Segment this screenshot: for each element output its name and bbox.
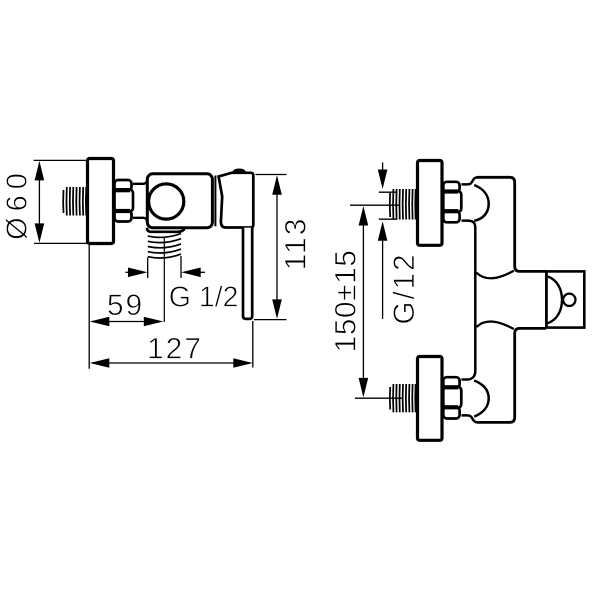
body waist frown curve (right view)	[477, 322, 514, 329]
top sleeve lines into body (right view)	[462, 177, 478, 227]
union nut face boundaries (left view)	[116, 190, 130, 211]
handle escutcheon plate (right view)	[546, 271, 584, 327]
svg-text:G/12: G/12	[388, 253, 421, 325]
handle base (left view)	[219, 173, 254, 228]
dimension 113: dimension line with arrows	[272, 175, 282, 319]
dimension Ø60: extension line top	[34, 159, 90, 161]
dimension 127: dimension line with arrows	[90, 358, 253, 368]
dimension 59: dimension line with arrows	[90, 317, 164, 327]
top inlet thread (right view)	[390, 189, 416, 220]
collar between nut and body (left view)	[133, 182, 147, 221]
handle dome (right view)	[548, 277, 562, 324]
svg-text:Ø60: Ø60	[2, 167, 34, 240]
valve body (left view)	[147, 174, 212, 228]
dimension G/12: upper arrow (pointing down)	[378, 163, 388, 190]
handle button circle (right view)	[563, 294, 575, 306]
union nut (left view, three hex faces)	[115, 180, 134, 222]
dimension Ø60: dimension line with arrows	[35, 161, 45, 243]
outlet centerline (left view)	[163, 238, 165, 322]
dimension G/12: lower arrow (pointing up) with tail	[378, 221, 388, 319]
dimension 113: extension line bottom	[254, 319, 287, 321]
dimension 150±15: extension line bottom (pipe centerline)	[355, 397, 402, 399]
dimension 150±15: dimension line with arrows	[359, 206, 369, 397]
body circle (left view, valve boss)	[149, 184, 184, 219]
wall flange (left view)	[88, 159, 114, 244]
top wall flange (right view)	[418, 161, 443, 246]
dimension Ø60: extension line bottom	[34, 242, 90, 244]
bottom union nut face boundaries (right view)	[445, 387, 459, 407]
bottom sleeve lines into body (right view)	[462, 415, 478, 422]
pipe tip outline top (right view)	[379, 191, 397, 193]
handle cap (black, left view)	[232, 169, 246, 174]
top union nut (right view)	[443, 182, 461, 223]
inlet thread (left view, threaded tail piece)	[63, 187, 86, 216]
svg-text:59: 59	[107, 289, 144, 322]
body outline top and right edge (right view)	[477, 177, 546, 271]
body left edge (right view)	[462, 227, 476, 380]
pipe tip outline bottom (right view)	[379, 218, 397, 220]
dimension G1/2: extension line right	[180, 256, 182, 278]
svg-text:113: 113	[280, 217, 313, 271]
dimension G1/2: extension line left	[147, 258, 149, 279]
dimension 127: extension line left (from flange)	[88, 245, 90, 369]
outlet thread G1/2 (left view, helix coil lines)	[148, 234, 181, 259]
bottom wall flange (right view)	[418, 357, 443, 441]
cartridge ring line (left view)	[214, 176, 216, 227]
dimension 113: extension line top	[256, 174, 287, 176]
outlet collar ring (left view)	[147, 228, 185, 232]
bottom inlet thread (right view)	[390, 384, 416, 412]
handle lever (left view)	[243, 228, 252, 319]
svg-text:127: 127	[147, 333, 203, 366]
svg-text:G 1/2: G 1/2	[169, 282, 239, 314]
dimension 150±15: tick top (pipe centerline)	[350, 204, 400, 206]
top dome transition arc (right view)	[474, 185, 489, 221]
bottom dome transition arc (right view)	[474, 381, 489, 417]
top union nut face boundaries (right view)	[445, 192, 459, 212]
svg-text:150±15: 150±15	[330, 250, 363, 353]
handle escutcheon left edge (right view)	[545, 272, 548, 328]
body outline bottom and right edge (right view)	[477, 328, 546, 422]
body waist smile curve (right view)	[476, 271, 514, 278]
dimension G1/2: left outside arrow	[126, 268, 148, 278]
bottom union nut (right view)	[443, 377, 461, 418]
dimension 127: extension line right (from lever)	[252, 321, 254, 368]
dimension G1/2: right outside arrow	[181, 268, 205, 278]
